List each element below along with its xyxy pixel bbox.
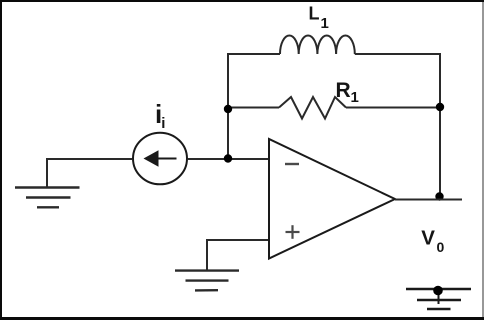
svg-text:0: 0: [437, 239, 445, 255]
wire: top lead from inductor to right feedback vertical: [355, 54, 440, 196]
inductor L1: [280, 35, 355, 54]
ground (below op-amp): [175, 271, 239, 291]
ground (output reference, bottom right): [406, 289, 471, 309]
node: junction dot on output ground: [433, 286, 443, 296]
resistor R1: [279, 97, 346, 119]
svg-text:V: V: [421, 226, 435, 249]
op-amp U1: [269, 139, 395, 259]
current source I1: [133, 133, 187, 185]
node: junction dot left at input wire: [224, 154, 232, 162]
border frame top: [0, 0, 484, 2]
svg-text:L: L: [309, 4, 320, 24]
node: junction dot right at R1: [436, 103, 444, 111]
wire: R1 left lead: [228, 107, 279, 109]
border frame bottom: [0, 317, 484, 320]
svg-text:i: i: [161, 115, 165, 132]
wire: output: [395, 199, 462, 201]
svg-text:1: 1: [321, 15, 329, 32]
current source arrow: [144, 150, 177, 166]
ground (left): [15, 188, 80, 208]
wire: current source to inverting input: [188, 158, 269, 160]
border frame left: [0, 0, 2, 320]
svg-text:1: 1: [351, 89, 359, 106]
wire: left ground to current source: [47, 159, 132, 187]
op-amp plus input symbol: [286, 225, 300, 239]
wire: left feedback vertical with top lead to inductor: [228, 54, 280, 159]
node: junction dot left at R1: [224, 105, 232, 113]
wire: R1 right lead: [346, 107, 440, 109]
border frame right: [482, 2, 484, 317]
wire: ground stub: [438, 290, 440, 304]
svg-text:R: R: [336, 79, 351, 102]
op-amp minus input symbol: [285, 163, 299, 165]
wire: non-inverting input to ground: [207, 240, 269, 270]
node: junction dot at output: [435, 192, 443, 200]
